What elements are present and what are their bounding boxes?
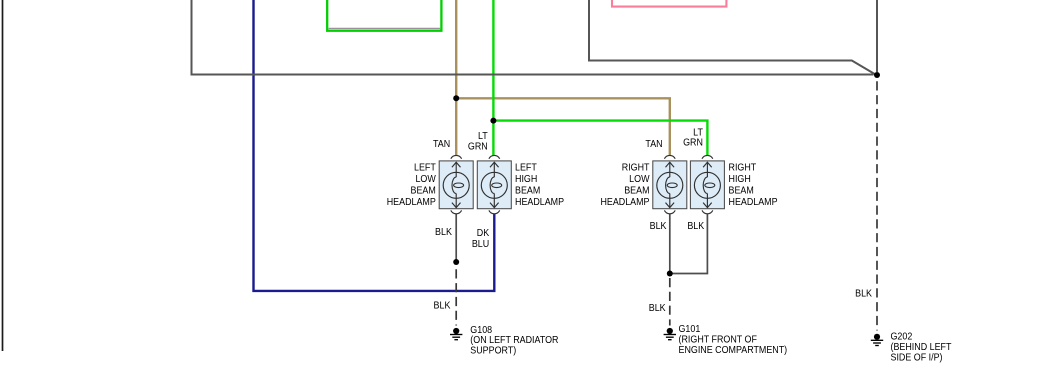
- svg-text:RIGHT: RIGHT: [729, 162, 757, 174]
- svg-text:GRN: GRN: [683, 137, 703, 149]
- svg-text:LOW: LOW: [415, 173, 436, 185]
- svg-text:GRN: GRN: [468, 141, 488, 153]
- svg-text:BLK: BLK: [687, 220, 704, 232]
- svg-text:BLK: BLK: [650, 220, 667, 232]
- svg-text:HEADLAMP: HEADLAMP: [600, 196, 649, 208]
- svg-text:LEFT: LEFT: [515, 162, 537, 174]
- svg-text:TAN: TAN: [645, 138, 662, 150]
- svg-text:HIGH: HIGH: [515, 173, 537, 185]
- svg-text:SIDE OF I/P): SIDE OF I/P): [891, 352, 943, 364]
- svg-text:BEAM: BEAM: [515, 185, 540, 197]
- svg-text:HEADLAMP: HEADLAMP: [729, 196, 778, 208]
- svg-text:RIGHT: RIGHT: [622, 162, 650, 174]
- svg-text:ENGINE COMPARTMENT): ENGINE COMPARTMENT): [679, 344, 788, 356]
- svg-text:SUPPORT): SUPPORT): [470, 345, 516, 357]
- svg-text:TAN: TAN: [433, 138, 450, 150]
- svg-text:BLK: BLK: [434, 300, 451, 312]
- svg-text:HIGH: HIGH: [729, 173, 751, 185]
- svg-text:HEADLAMP: HEADLAMP: [387, 196, 436, 208]
- svg-text:BLK: BLK: [649, 302, 666, 314]
- svg-text:BLK: BLK: [855, 288, 872, 300]
- svg-text:DK: DK: [477, 227, 490, 239]
- svg-text:LOW: LOW: [629, 173, 650, 185]
- svg-text:BEAM: BEAM: [411, 185, 436, 197]
- svg-text:BLU: BLU: [472, 238, 489, 250]
- svg-text:HEADLAMP: HEADLAMP: [515, 196, 564, 208]
- svg-text:BEAM: BEAM: [624, 185, 649, 197]
- svg-text:BLK: BLK: [435, 226, 452, 238]
- svg-text:BEAM: BEAM: [729, 185, 754, 197]
- svg-text:LEFT: LEFT: [414, 162, 436, 174]
